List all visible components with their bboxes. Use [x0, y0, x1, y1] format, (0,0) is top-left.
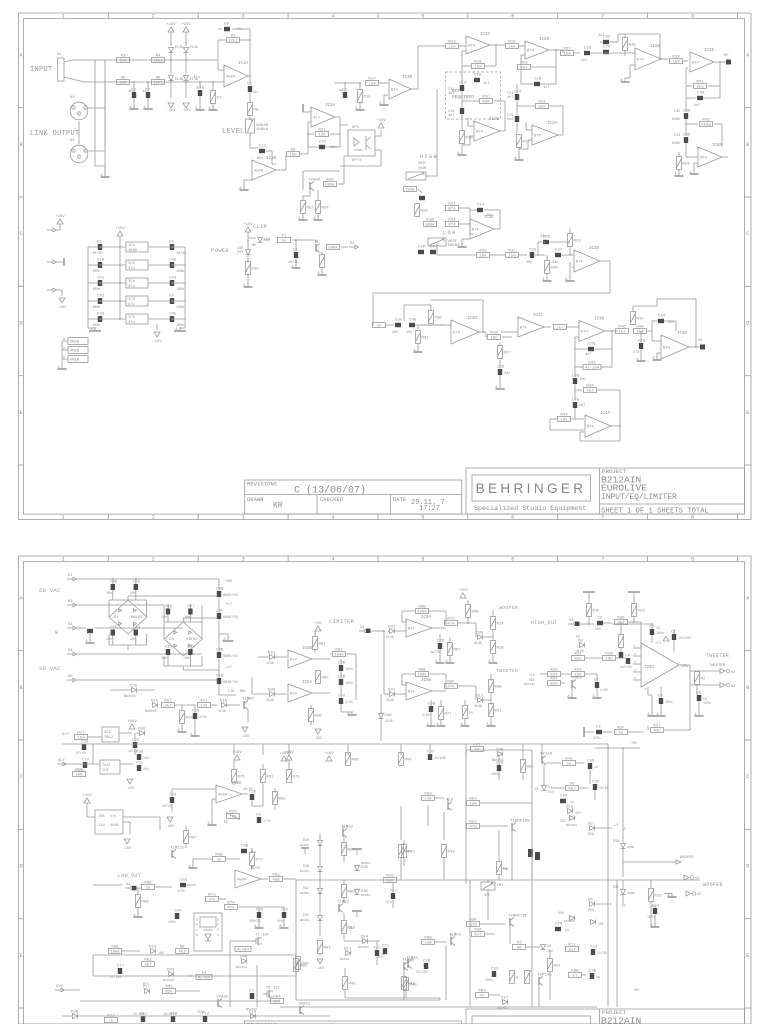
svg-text:R9F: R9F — [447, 680, 455, 684]
svg-text:D37: D37 — [388, 626, 396, 630]
svg-text:C37: C37 — [427, 751, 435, 755]
svg-text:4148: 4148 — [190, 46, 198, 50]
svg-text:1n: 1n — [142, 90, 147, 94]
svg-text:A: A — [461, 722, 463, 726]
svg-text:R75: R75 — [293, 776, 301, 780]
svg-text:4: 4 — [331, 13, 334, 19]
svg-text:-: - — [287, 700, 289, 704]
svg-text:100n: 100n — [491, 772, 499, 776]
svg-text:IC6A: IC6A — [302, 681, 313, 685]
svg-text:-: - — [584, 435, 586, 439]
svg-text:A: A — [566, 277, 568, 281]
svg-text:4580: 4580 — [226, 76, 236, 80]
svg-text:6J1: 6J1 — [474, 934, 482, 938]
svg-text:A: A — [240, 186, 242, 190]
svg-text:A: A — [101, 173, 103, 177]
svg-text:-15V: -15V — [166, 109, 176, 113]
svg-text:C34: C34 — [590, 946, 598, 950]
svg-text:+: + — [287, 651, 289, 655]
svg-text:R34: R34 — [469, 918, 477, 922]
svg-text:12k: 12k — [469, 802, 477, 807]
svg-text:A: A — [208, 821, 210, 825]
svg-text:-LF: -LF — [225, 666, 233, 670]
svg-text:BAV00: BAV00 — [361, 894, 370, 897]
svg-text:IC4D: IC4D — [467, 317, 478, 321]
svg-text:VR2F: VR2F — [418, 162, 426, 166]
svg-text:+: + — [251, 161, 253, 165]
svg-text:MDL: MDL — [240, 690, 246, 694]
svg-text:D: D — [20, 321, 23, 327]
svg-text:R54: R54 — [322, 207, 330, 211]
svg-text:20n: 20n — [250, 850, 256, 854]
svg-text:IC1: IC1 — [128, 244, 136, 248]
svg-text:100k: 100k — [110, 950, 120, 955]
svg-text:100n: 100n — [92, 288, 100, 292]
svg-text:D: D — [746, 321, 749, 327]
svg-text:C2B: C2B — [110, 581, 118, 585]
svg-text:A: A — [543, 277, 545, 281]
svg-text:D30: D30 — [138, 728, 146, 732]
svg-text:BAV103: BAV103 — [163, 979, 174, 982]
svg-text:10k: 10k — [490, 336, 498, 341]
svg-text:D16: D16 — [558, 911, 564, 915]
svg-text:D5: D5 — [588, 823, 593, 827]
svg-text:C20: C20 — [534, 78, 542, 82]
svg-text:120k: 120k — [405, 188, 415, 193]
svg-text:10/25: 10/25 — [243, 787, 253, 791]
svg-text:R87: R87 — [190, 837, 198, 841]
svg-text:10/25: 10/25 — [162, 804, 172, 808]
svg-text:C33: C33 — [180, 879, 188, 883]
svg-text:1n: 1n — [594, 765, 598, 769]
svg-text:1k: 1k — [109, 1019, 114, 1024]
svg-text:R45: R45 — [349, 983, 357, 987]
svg-text:A: A — [318, 271, 320, 275]
svg-text:A: A — [86, 639, 88, 643]
svg-text:+: + — [465, 37, 467, 41]
svg-text:E: E — [20, 410, 23, 416]
svg-text:6800/50: 6800/50 — [223, 615, 238, 620]
svg-text:150: 150 — [672, 61, 680, 65]
svg-text:A0: A0 — [517, 947, 522, 951]
svg-text:D40: D40 — [385, 714, 393, 718]
svg-text:4n7: 4n7 — [581, 59, 587, 63]
svg-text:BT4: BT4 — [391, 89, 399, 93]
svg-text:IC3D: IC3D — [589, 247, 600, 251]
svg-text:7293: 7293 — [644, 666, 655, 670]
svg-text:BAV99: BAV99 — [300, 870, 309, 873]
svg-text:D15: D15 — [566, 806, 574, 810]
svg-text:C29: C29 — [572, 399, 580, 403]
svg-text:ALTB4: ALTB4 — [237, 949, 250, 953]
svg-text:D39: D39 — [268, 689, 276, 693]
svg-text:C: C — [746, 231, 749, 237]
svg-text:82k: 82k — [165, 990, 173, 995]
svg-text:4n7: 4n7 — [483, 82, 489, 86]
svg-text:R77: R77 — [445, 713, 453, 717]
svg-text:1k: 1k — [619, 731, 624, 736]
svg-text:820: 820 — [482, 101, 490, 105]
svg-text:VR1B: VR1B — [70, 359, 80, 363]
svg-text:R73: R73 — [208, 893, 216, 897]
svg-text:4/B: 4/B — [469, 825, 477, 830]
svg-text:47/50: 47/50 — [76, 751, 86, 755]
svg-text:J14: J14 — [98, 824, 106, 828]
svg-text:A: A — [458, 243, 460, 247]
svg-text:R45: R45 — [352, 759, 360, 763]
svg-text:R16: R16 — [75, 768, 83, 772]
svg-text:12B: 12B — [424, 798, 432, 802]
svg-text:C15: C15 — [110, 626, 118, 630]
svg-text:R39: R39 — [672, 55, 680, 59]
svg-text:TWEETER: TWEETER — [709, 664, 726, 668]
svg-text:10n: 10n — [667, 321, 673, 325]
svg-text:A: A — [292, 264, 294, 268]
svg-text:LEVEL: LEVEL — [222, 128, 245, 136]
svg-text:+: + — [287, 685, 289, 689]
svg-text:R2B: R2B — [617, 616, 625, 620]
svg-text:+: + — [450, 321, 452, 325]
svg-text:R6B: R6B — [144, 881, 152, 885]
svg-text:SHEET 1 OF 1 SHEETS TOTAL: SHEET 1 OF 1 SHEETS TOTAL — [601, 508, 709, 516]
svg-text:0n2: 0n2 — [507, 118, 513, 122]
svg-text:C29: C29 — [192, 710, 200, 714]
svg-text:P140: P140 — [542, 974, 552, 978]
svg-text:1k: 1k — [282, 239, 287, 244]
svg-text:C16: C16 — [165, 605, 173, 609]
svg-text:R34: R34 — [448, 218, 456, 222]
svg-text:8: 8 — [691, 556, 694, 562]
svg-text:470n: 470n — [177, 889, 185, 893]
svg-text:-15V: -15V — [316, 967, 325, 971]
svg-text:R79: R79 — [447, 617, 455, 621]
svg-text:A: A — [176, 327, 178, 331]
svg-text:1k?: 1k? — [556, 326, 564, 331]
svg-text:10V: 10V — [158, 951, 164, 955]
svg-text:C13: C13 — [459, 82, 467, 86]
svg-text:P1: P1 — [282, 234, 287, 238]
svg-text:12k1: 12k1 — [153, 81, 163, 86]
svg-text:D32: D32 — [613, 885, 619, 889]
svg-text:BAV103: BAV103 — [246, 1008, 257, 1011]
svg-text:1k8: 1k8 — [119, 81, 127, 86]
svg-text:A42: A42 — [411, 957, 419, 961]
svg-text:R25: R25 — [252, 268, 260, 272]
svg-text:P3: P3 — [576, 635, 580, 639]
svg-text:C24: C24 — [514, 91, 522, 95]
svg-text:562: 562 — [520, 67, 528, 71]
svg-text:956: 956 — [588, 832, 594, 836]
svg-text:1k2: 1k2 — [618, 330, 626, 335]
svg-text:B: B — [746, 685, 749, 691]
svg-text:K3: K3 — [697, 893, 701, 897]
svg-text:1: 1 — [196, 928, 198, 932]
svg-text:47: 47 — [480, 995, 485, 999]
svg-text:4n7: 4n7 — [507, 96, 513, 100]
svg-text:4: 4 — [331, 515, 334, 521]
svg-text:R28: R28 — [490, 331, 498, 335]
svg-text:168: 168 — [563, 53, 571, 57]
svg-text:BAV99: BAV99 — [300, 844, 309, 847]
svg-text:4500: 4500 — [110, 824, 118, 828]
svg-text:BT4: BT4 — [637, 59, 645, 63]
svg-text:K5: K5 — [724, 54, 729, 58]
svg-text:KBL04: KBL04 — [131, 616, 143, 620]
svg-text:10u: 10u — [256, 157, 263, 161]
svg-text:K5: K5 — [68, 675, 73, 679]
svg-text:1k: 1k — [567, 762, 572, 767]
svg-text:100n: 100n — [345, 681, 353, 685]
svg-text:D12: D12 — [476, 695, 484, 699]
svg-text:40dB: 40dB — [418, 166, 426, 171]
svg-text:R23: R23 — [574, 240, 582, 244]
svg-text:C42: C42 — [638, 340, 646, 344]
svg-text:A: A — [280, 924, 282, 928]
svg-text:C12: C12 — [187, 646, 195, 650]
svg-text:A: A — [436, 659, 438, 663]
svg-text:C2: C2 — [596, 726, 601, 730]
svg-text:+: + — [223, 66, 225, 70]
svg-text:4/50: 4/50 — [199, 715, 207, 719]
svg-text:A: A — [299, 216, 301, 220]
svg-text:1k: 1k — [469, 711, 474, 716]
svg-text:C25: C25 — [133, 581, 141, 585]
svg-text:50V: 50V — [237, 251, 244, 255]
svg-text:47u: 47u — [128, 321, 135, 325]
svg-text:R9B: R9B — [418, 668, 426, 672]
svg-text:R22: R22 — [469, 820, 477, 824]
svg-text:R14: R14 — [368, 77, 376, 81]
svg-text:-: - — [215, 801, 217, 805]
svg-text:+16V: +16V — [127, 720, 137, 724]
svg-text:K9: K9 — [291, 148, 296, 152]
svg-text:7: 7 — [601, 556, 604, 562]
svg-text:100: 100 — [474, 66, 482, 70]
svg-text:1: 1 — [217, 928, 219, 932]
svg-text:3: 3 — [78, 113, 80, 117]
svg-text:2: 2 — [84, 107, 86, 111]
svg-text:+: + — [689, 53, 691, 57]
svg-text:A92: A92 — [221, 996, 229, 1000]
svg-text:C2D: C2D — [437, 640, 445, 644]
svg-text:100k: 100k — [417, 673, 427, 678]
svg-text:C40: C40 — [97, 313, 105, 317]
svg-text:A: A — [489, 659, 491, 663]
svg-text:47u: 47u — [110, 815, 116, 819]
svg-text:D27: D27 — [501, 997, 509, 1001]
svg-text:D19: D19 — [249, 1011, 257, 1015]
svg-text:C43: C43 — [169, 277, 177, 281]
svg-text:ALTB4: ALTB4 — [198, 977, 211, 981]
svg-text:P6: P6 — [570, 782, 575, 786]
svg-text:O: O — [196, 918, 198, 922]
svg-text:C45: C45 — [169, 313, 177, 317]
svg-text:C8: C8 — [247, 83, 252, 87]
svg-text:TWEETER: TWEETER — [706, 653, 729, 659]
svg-text:6P2: 6P2 — [454, 934, 462, 938]
svg-text:D24: D24 — [361, 936, 369, 940]
svg-text:+15: +15 — [314, 622, 322, 626]
svg-text:A: A — [648, 712, 650, 716]
svg-text:D2B: D2B — [71, 1011, 79, 1015]
svg-text:A17: A17 — [568, 949, 576, 953]
svg-text:C3F: C3F — [216, 610, 224, 614]
svg-text:K2: K2 — [70, 96, 75, 100]
svg-text:D8: D8 — [578, 640, 583, 644]
svg-text:HIGH: HIGH — [420, 154, 438, 160]
svg-text:R67: R67 — [319, 643, 327, 647]
svg-text:Specialized Studio Equipment: Specialized Studio Equipment — [474, 505, 586, 513]
svg-text:A: A — [487, 722, 489, 726]
svg-text:LOW: LOW — [443, 230, 457, 236]
svg-text:R50: R50 — [424, 792, 432, 796]
svg-text:-15V: -15V — [123, 847, 132, 851]
svg-text:C4B: C4B — [216, 649, 224, 653]
svg-text:R5d: R5d — [469, 796, 477, 801]
svg-text:C35: C35 — [674, 110, 680, 114]
svg-text:47k: 47k — [227, 906, 235, 911]
svg-text:+HV: +HV — [631, 742, 638, 746]
svg-text:R37: R37 — [653, 724, 661, 728]
svg-text:REQUIRED: REQUIRED — [452, 94, 474, 100]
svg-text:R21: R21 — [318, 128, 326, 132]
svg-text:10n: 10n — [595, 627, 601, 631]
svg-text:+: + — [578, 322, 580, 326]
svg-text:6: 6 — [511, 556, 514, 562]
svg-text:BT4: BT4 — [534, 135, 542, 139]
svg-text:A: A — [20, 596, 23, 602]
svg-text:R26: R26 — [605, 652, 613, 656]
svg-text:-: - — [450, 342, 452, 346]
svg-text:1k: 1k — [146, 886, 151, 891]
svg-text:R1F: R1F — [593, 610, 601, 614]
svg-text:47-100: 47-100 — [585, 367, 600, 371]
svg-text:100n: 100n — [345, 667, 353, 671]
svg-text:7119: 7119 — [175, 847, 185, 851]
svg-text:22/50: 22/50 — [599, 786, 609, 790]
svg-text:X4: X4 — [569, 619, 574, 623]
svg-text:C17: C17 — [187, 605, 195, 609]
svg-text:+: + — [388, 80, 390, 84]
svg-text:R74: R74 — [227, 901, 235, 905]
svg-text:BT4: BT4 — [527, 50, 535, 54]
svg-text:C44: C44 — [652, 905, 660, 909]
svg-text:100n: 100n — [656, 631, 664, 635]
svg-text:D3?: D3? — [268, 652, 276, 656]
svg-text:10n: 10n — [106, 592, 112, 596]
svg-text:4580: 4580 — [254, 170, 264, 174]
svg-text:2k7: 2k7 — [349, 926, 355, 930]
svg-text:100n: 100n — [168, 920, 176, 924]
svg-text:470: 470 — [484, 893, 490, 897]
svg-text:BT4: BT4 — [448, 208, 456, 212]
svg-text:KR: KR — [273, 502, 283, 511]
svg-text:C62: C62 — [281, 909, 289, 913]
svg-text:D14: D14 — [344, 948, 352, 952]
svg-text:R4B: R4B — [629, 44, 637, 48]
svg-text:T1: T1 — [314, 241, 319, 245]
svg-text:R6?: R6? — [454, 649, 462, 653]
svg-text:D4B: D4B — [240, 956, 248, 960]
svg-text:BAV103: BAV103 — [566, 824, 577, 827]
svg-text:INPUT: INPUT — [30, 66, 53, 74]
svg-text:R36: R36 — [435, 317, 443, 321]
svg-text:R1B: R1B — [497, 647, 505, 651]
svg-text:WOOFER: WOOFER — [680, 856, 694, 860]
svg-text:R52: R52 — [307, 207, 315, 211]
svg-text:A: A — [695, 712, 697, 716]
svg-text:-15V: -15V — [57, 306, 67, 310]
svg-text:+: + — [697, 148, 699, 152]
svg-text:+LY: +LY — [655, 642, 662, 646]
svg-text:R32: R32 — [508, 249, 516, 253]
svg-text:IC3B: IC3B — [402, 76, 413, 80]
svg-text:IC2E: IC2E — [704, 49, 715, 53]
svg-text:A: A — [144, 105, 146, 109]
svg-text:C3P: C3P — [418, 246, 426, 250]
svg-text:A: A — [314, 216, 316, 220]
svg-text:A: A — [568, 694, 570, 698]
svg-text:A: A — [255, 924, 257, 928]
svg-text:82k: 82k — [574, 657, 582, 662]
svg-text:C41: C41 — [97, 277, 105, 281]
svg-text:47k: 47k — [447, 685, 455, 690]
svg-text:BT4: BT4 — [581, 331, 589, 335]
svg-text:100n: 100n — [197, 1010, 205, 1014]
svg-text:INPUT/EQ/LIMITER: INPUT/EQ/LIMITER — [601, 493, 677, 502]
svg-text:R20: R20 — [520, 61, 528, 65]
svg-text:1u: 1u — [338, 89, 343, 93]
svg-text:IC4: IC4 — [128, 280, 136, 284]
svg-text:45B: 45B — [272, 879, 280, 883]
svg-text:P: P — [217, 923, 219, 927]
svg-text:A: A — [63, 346, 65, 350]
svg-text:IC9B: IC9B — [421, 679, 432, 683]
svg-text:A: A — [427, 722, 429, 726]
svg-text:R1B: R1B — [426, 218, 434, 222]
svg-text:R17: R17 — [77, 731, 85, 735]
svg-text:K4: K4 — [350, 242, 355, 246]
svg-text:R6B: R6B — [472, 611, 480, 615]
svg-text:R91: R91 — [267, 776, 275, 780]
svg-text:REVISIONS: REVISIONS — [247, 481, 278, 488]
svg-text:D35: D35 — [130, 685, 138, 689]
svg-text:A: A — [63, 337, 65, 341]
svg-text:100k: 100k — [417, 610, 427, 615]
svg-text:R4B: R4B — [410, 984, 418, 988]
svg-text:BT4: BT4 — [408, 691, 416, 695]
svg-text:CLIP: CLIP — [253, 223, 267, 230]
svg-text:4n7: 4n7 — [543, 86, 549, 90]
svg-text:14k: 14k — [605, 657, 613, 662]
svg-text:A: A — [496, 385, 498, 389]
svg-text:A7B: A7B — [469, 924, 477, 928]
svg-text:+15V: +15V — [166, 23, 176, 27]
svg-text:R2: R2 — [701, 678, 706, 682]
svg-text:10n: 10n — [143, 767, 149, 771]
svg-text:149: 149 — [545, 753, 553, 757]
svg-text:4k7: 4k7 — [144, 963, 152, 968]
svg-text:10n: 10n — [130, 592, 136, 596]
svg-text:820: 820 — [538, 106, 546, 110]
svg-text:4148: 4148 — [474, 641, 482, 645]
svg-text:-: - — [310, 125, 312, 129]
svg-text:+16V: +16V — [324, 752, 334, 756]
svg-text:R29: R29 — [229, 810, 237, 814]
svg-text:+: + — [473, 122, 475, 126]
svg-text:R45: R45 — [637, 318, 645, 322]
svg-text:E: E — [20, 953, 23, 959]
